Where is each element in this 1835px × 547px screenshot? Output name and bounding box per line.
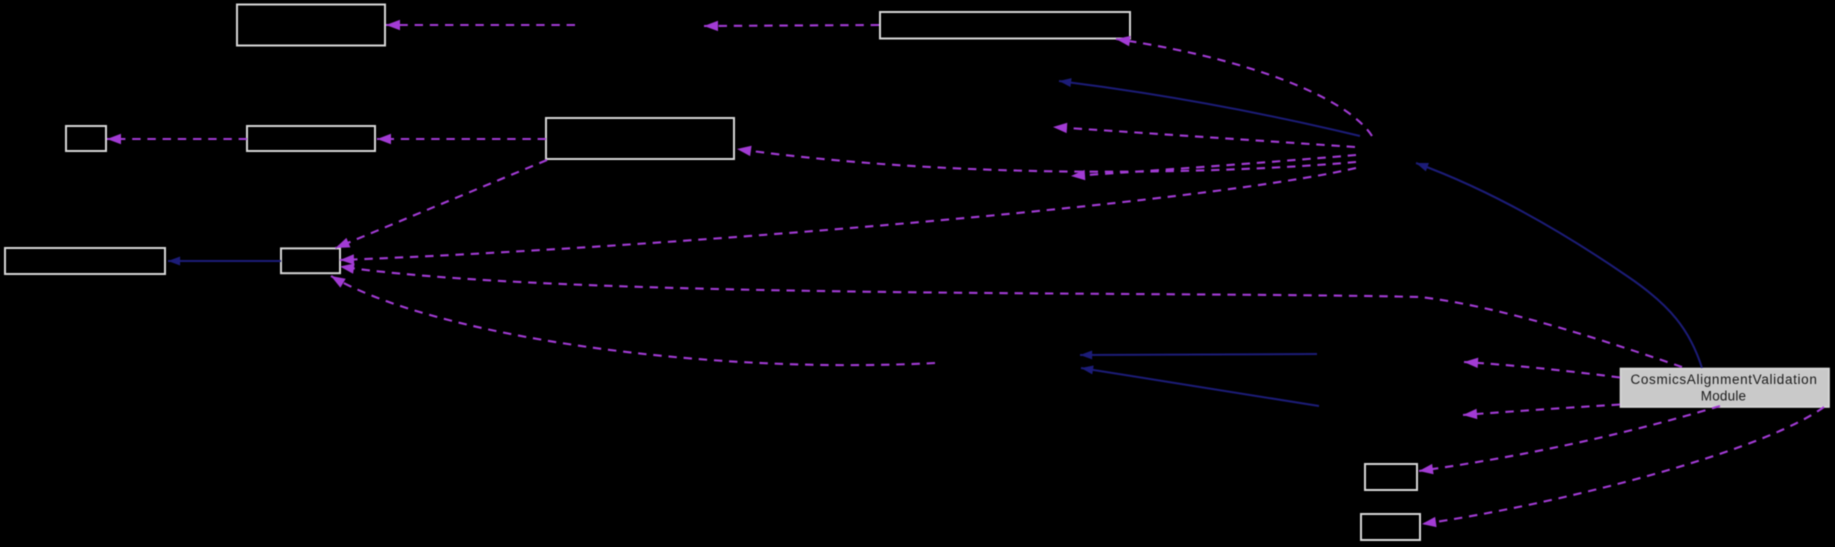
edge E18 blue B7 to B6 [168,260,281,262]
edge E5 blue hub to invisible [1059,81,1360,136]
edge E3 invisible to B1 [386,24,575,26]
edge E19 B5 to B7 top corner [336,160,548,248]
edge E11 blue invisible to invisible [1080,354,1317,355]
edge E17 B8 to B10 [1422,407,1824,524]
node B10 [1361,514,1420,540]
svg-text:CosmicsAlignmentValidation: CosmicsAlignmentValidation [1631,372,1818,387]
edge E7 hub to invisible [1071,155,1356,176]
edge E9 B8 top to B7 right long arc [340,267,1682,368]
edge E13 blue B8 to hub [1416,163,1702,368]
node B7 [281,248,340,273]
edge E12 blue invisible to invisible [1081,368,1319,406]
edge E20 hub to B5 right [737,149,1356,172]
edge E14 B8 to invisible left [1464,362,1620,378]
node B5 [546,118,734,159]
edge E10 invisible to B7 bottom corner [331,276,935,365]
node B3 [66,126,106,151]
node B4 [247,126,375,151]
node B9 [1365,464,1417,490]
edge E8 hub to B7 right [340,168,1356,260]
node B6 [5,248,165,274]
edge E1 B4 to B3 [107,138,247,140]
svg-text:Module: Module [1701,389,1746,404]
node B1 [237,5,385,46]
edge E2 B5 to B4 [377,138,546,140]
edge E21 B2 to invisible [704,25,879,26]
edge E16 B8 to B9 [1419,406,1720,471]
edge E15 B8 to invisible left lower [1463,405,1620,416]
edge E4 hub to B2 corner [1116,39,1372,136]
edge E6 hub to invisible [1053,127,1355,147]
node B8 CosmicsAlignmentValidationModule [1621,369,1830,408]
node B2 [880,12,1130,39]
